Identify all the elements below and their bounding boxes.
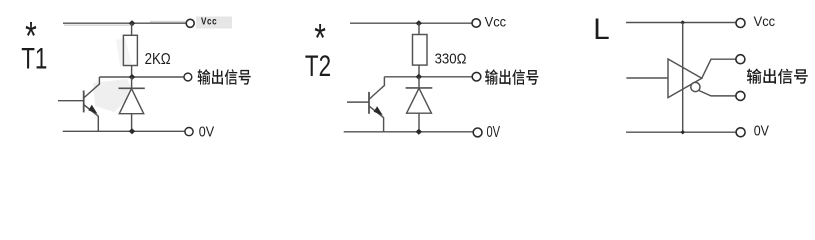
wire resistor R1 top lead xyxy=(131,23,133,35)
scan smudge near top rail T1 xyxy=(64,24,134,26)
transistor Q2 base lead wire xyxy=(347,101,369,103)
driver U1 inversion bubble xyxy=(691,82,700,91)
svg-text:2KΩ: 2KΩ xyxy=(145,51,171,68)
terminal output signal T1 xyxy=(184,73,192,81)
wire diode D2 bottom lead xyxy=(418,113,420,132)
terminal output+ L xyxy=(736,55,745,64)
junction node Vcc rail / driver supply L xyxy=(680,20,685,24)
svg-text:0V: 0V xyxy=(487,123,501,140)
svg-text:0V: 0V xyxy=(199,124,215,140)
label 输出信号 T1 xyxy=(198,69,251,85)
label 输出信号 L xyxy=(747,69,808,84)
diode D2 triangle (anode below, pointing up) xyxy=(407,88,432,113)
transistor Q1 emitter with NPN arrow xyxy=(84,105,98,116)
terminal output signal T2 xyxy=(472,72,481,81)
wire Vcc top rail T1 xyxy=(63,22,186,24)
wire resistor R2 top lead xyxy=(418,23,420,34)
svg-text:Vcc: Vcc xyxy=(754,14,776,29)
scan smudge around transistor Q1 xyxy=(93,79,134,112)
svg-text:330Ω: 330Ω xyxy=(435,50,467,67)
svg-text:0V: 0V xyxy=(754,121,770,138)
junction node output/R1/D1 T1 xyxy=(129,74,136,80)
resistor R1 body xyxy=(123,35,137,65)
scan smudge left of resistor R1 xyxy=(116,38,132,66)
wire resistor R1 bottom lead xyxy=(131,66,133,78)
terminal 0V T1 xyxy=(185,128,193,136)
wire output signal line T1 xyxy=(99,76,184,78)
svg-text:Vcc: Vcc xyxy=(201,16,217,27)
transistor Q2 emitter with NPN arrow xyxy=(370,106,384,117)
wire driver supply vertical L xyxy=(682,23,684,133)
svg-text:L: L xyxy=(593,13,609,46)
junction node driver supply / 0V rail L xyxy=(680,130,685,134)
transistor Q1 base lead wire xyxy=(58,100,84,102)
terminal 0V L xyxy=(736,128,745,137)
label 输出信号 T2 xyxy=(485,69,538,85)
wire non-inverting output L xyxy=(702,59,736,78)
scan smudge above top rail right part T1 xyxy=(150,21,185,22)
junction node output/R2/D2 T2 xyxy=(416,74,423,80)
wire diode D1 top lead xyxy=(131,77,133,88)
svg-text:Vcc: Vcc xyxy=(485,14,507,29)
transistor Q2 collector xyxy=(370,77,385,99)
diode D1 triangle (anode below, pointing up) xyxy=(119,89,143,114)
scan smudge behind Vcc label T1 xyxy=(196,17,232,29)
driver U1 triangle xyxy=(668,59,702,98)
junction node D2/0V rail T2 xyxy=(416,129,423,135)
resistor R2 body xyxy=(413,35,428,66)
svg-text:T1: T1 xyxy=(21,41,47,75)
junction node at Vcc rail / resistor R1 xyxy=(129,20,136,26)
terminal 0V T2 xyxy=(473,128,482,137)
wire output signal line T2 xyxy=(384,76,472,78)
diode D1 cathode bar xyxy=(119,87,145,89)
wire 0V bottom rail T2 xyxy=(344,131,473,133)
wire driver input L xyxy=(626,77,668,79)
wire diode D2 top lead xyxy=(418,77,420,88)
transistor Q2 base bar xyxy=(368,92,370,114)
diode D2 cathode bar xyxy=(406,87,433,89)
transistor Q1 collector xyxy=(84,77,99,98)
wire diode D1 bottom lead xyxy=(131,114,133,132)
wire resistor R2 bottom lead xyxy=(418,65,420,77)
terminal Vcc T1 xyxy=(186,19,194,27)
wire 0V bottom rail T1 xyxy=(63,130,185,132)
wire inverting output L xyxy=(699,91,736,96)
transistor Q1 base bar xyxy=(83,91,85,113)
terminal Vcc T2 xyxy=(472,19,480,27)
junction node Vcc rail / resistor R2 xyxy=(416,20,423,26)
wire Q2 emitter to 0V rail xyxy=(383,117,385,132)
svg-text:T2: T2 xyxy=(305,49,331,83)
wire Q1 emitter to 0V rail xyxy=(97,116,99,131)
terminal output- L xyxy=(736,91,745,100)
terminal Vcc L xyxy=(736,19,745,28)
wire Vcc top rail L xyxy=(626,22,735,24)
junction node D1/0V rail T1 xyxy=(129,128,136,134)
wire 0V bottom rail L xyxy=(626,131,735,133)
wire Vcc top rail T2 xyxy=(350,22,472,24)
